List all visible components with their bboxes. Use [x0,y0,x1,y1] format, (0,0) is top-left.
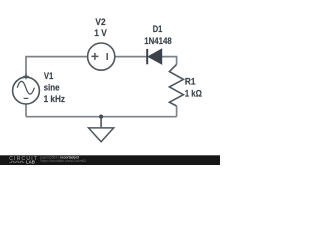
svg-text:sine: sine [44,83,60,93]
resistor R1 zigzag [169,64,183,106]
wire: bottom rail [26,116,177,118]
V1 sine wave [17,81,34,94]
wire: V1 bottom lead [25,104,27,117]
ground triangle [89,128,114,142]
svg-text:D1: D1 [153,24,163,34]
svg-text:1 kHz: 1 kHz [44,94,66,104]
voltage source V1 circle [13,77,40,104]
wire: V1 top lead up and top rail to V2 [26,57,88,78]
svg-text:V1: V1 [44,71,53,81]
svg-text:https://circuitlab.com/c2ubm62: https://circuitlab.com/c2ubm62 [41,159,87,163]
V2 plus sign [91,53,98,60]
wires (lighter gray) [26,57,177,117]
V1 plus sign [23,74,29,80]
diode D1 cathode bar [146,49,148,64]
V2 minus bar [106,53,108,60]
voltage source V2 circle [88,43,115,70]
V1 minus sign [24,97,29,99]
svg-text:1N4148: 1N4148 [144,36,171,46]
svg-text:1 kΩ: 1 kΩ [185,89,202,99]
watermark bar [0,155,220,165]
diode D1 triangle (pointing left) [148,49,161,64]
ground stub [100,117,102,128]
svg-text:1 V: 1 V [94,28,107,38]
svg-text:R1: R1 [185,76,196,86]
svg-text:LAB: LAB [26,159,35,164]
svg-text:V2: V2 [95,17,105,27]
wire: R1 bottom lead [176,106,178,117]
wire: V2 right to diode cathode bar [115,56,147,58]
wire: diode anode to right corner and down to R1 [162,57,177,65]
logo waveform [9,161,24,162]
junction node dot at ground [99,115,103,119]
